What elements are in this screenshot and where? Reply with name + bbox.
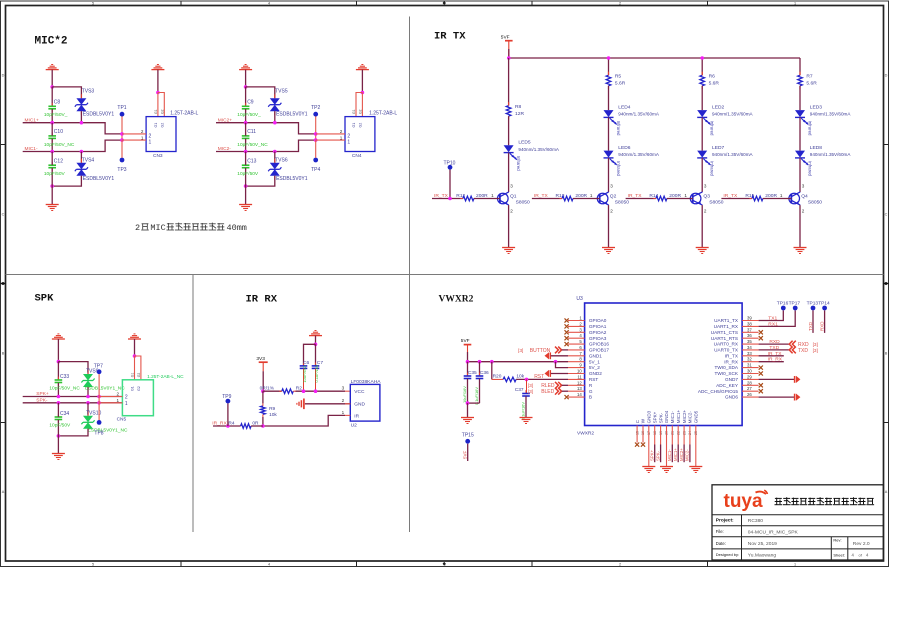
svg-text:TP7: TP7 bbox=[94, 363, 103, 369]
svg-text:[3]: [3] bbox=[813, 348, 818, 354]
connector CN5 box (NC, green) bbox=[122, 380, 153, 416]
wire TP14 stem bbox=[824, 310, 826, 333]
wire to base bbox=[763, 198, 791, 200]
node bbox=[244, 150, 248, 154]
svg-text:Infrared: Infrared bbox=[807, 161, 812, 176]
wire TP9 stem bbox=[227, 403, 229, 426]
svg-text:LF0038KAHA: LF0038KAHA bbox=[351, 379, 382, 385]
svg-text:MIC2-: MIC2- bbox=[688, 411, 693, 424]
svg-text:C: C bbox=[885, 213, 888, 217]
svg-text:VCC: VCC bbox=[354, 389, 365, 395]
node bbox=[57, 434, 61, 438]
svg-text:GPIOA1: GPIOA1 bbox=[589, 324, 607, 329]
node bbox=[57, 401, 61, 405]
svg-text:0.1uF/16V: 0.1uF/16V bbox=[314, 364, 319, 382]
wire tp stem bbox=[315, 140, 317, 158]
svg-text:tuya: tuya bbox=[724, 491, 764, 512]
svg-text:MIC2-: MIC2- bbox=[685, 449, 690, 461]
node rail-top MIC2 bbox=[244, 85, 248, 89]
svg-text:3: 3 bbox=[443, 2, 445, 6]
svg-text:10uF/6V3: 10uF/6V3 bbox=[302, 366, 307, 383]
U3 bottom pin GND4 to ground bbox=[666, 426, 668, 467]
wire TVS to rail bottom bbox=[246, 176, 275, 186]
svg-text:LED3: LED3 bbox=[810, 105, 823, 111]
svg-text:GPIOA3: GPIOA3 bbox=[589, 336, 607, 341]
U3 bottom pins 15,16 no-connect bbox=[636, 426, 638, 443]
ground bottom rail bbox=[46, 204, 59, 206]
pin 1 of CN4 bbox=[316, 139, 345, 141]
svg-text:940nm/1.35V/60mA: 940nm/1.35V/60mA bbox=[518, 147, 560, 152]
svg-text:TP16: TP16 bbox=[777, 301, 789, 307]
node bbox=[97, 395, 101, 399]
svg-text:2: 2 bbox=[510, 209, 513, 214]
svg-text:1: 1 bbox=[149, 140, 152, 146]
svg-text:0.1uF/16V: 0.1uF/16V bbox=[474, 387, 479, 405]
node bus-1 bbox=[507, 56, 511, 60]
wire TP8 stem bbox=[98, 403, 100, 420]
node bbox=[361, 91, 365, 95]
svg-text:G: G bbox=[589, 389, 593, 394]
wire tp stem bbox=[121, 116, 123, 140]
svg-text:GPIOA2: GPIOA2 bbox=[589, 330, 607, 335]
node bbox=[314, 132, 318, 136]
U3 bottom pin GND3 to ground bbox=[648, 426, 650, 467]
LED LED5 infrared bbox=[504, 145, 514, 152]
node bbox=[261, 389, 265, 393]
svg-text:3: 3 bbox=[443, 563, 445, 567]
svg-text:5VF: 5VF bbox=[501, 34, 510, 40]
title block rev/sheet columns bbox=[830, 537, 832, 560]
svg-text:3: 3 bbox=[610, 183, 613, 188]
resistor R8 12R bbox=[506, 106, 511, 117]
svg-text:940nm/1.35V/60mA: 940nm/1.35V/60mA bbox=[810, 112, 852, 117]
svg-text:2: 2 bbox=[125, 395, 128, 401]
svg-text:34: 34 bbox=[747, 345, 752, 350]
wire IR_RX bbox=[213, 425, 241, 427]
U3 right row 2: wire to TP17, label RX1 bbox=[759, 310, 796, 326]
svg-text:IR_RX: IR_RX bbox=[724, 359, 739, 364]
TVS diode TVS10 (NC, green) bbox=[87, 403, 89, 416]
svg-text:C: C bbox=[2, 213, 5, 217]
svg-text:MIC1-: MIC1- bbox=[670, 411, 675, 424]
resistor R5 5.6R bbox=[606, 75, 611, 86]
pin 2 of CN4 bbox=[316, 133, 345, 135]
capacitor C6 bbox=[303, 363, 305, 366]
svg-text:G1: G1 bbox=[131, 386, 135, 391]
svg-text:TXD: TXD bbox=[769, 345, 779, 351]
svg-text:10pF/50V_NC: 10pF/50V_NC bbox=[237, 142, 268, 148]
svg-text:GND3: GND3 bbox=[647, 410, 652, 423]
svg-text:32: 32 bbox=[747, 357, 752, 362]
svg-text:30: 30 bbox=[747, 369, 752, 374]
svg-text:5.6R: 5.6R bbox=[615, 80, 626, 86]
svg-text:S8050: S8050 bbox=[516, 199, 530, 205]
node bbox=[97, 401, 101, 405]
no-connect X mark U3 pin 14 bbox=[565, 395, 569, 399]
wire TP15 stem bbox=[467, 444, 469, 461]
svg-text:GPIOA0: GPIOA0 bbox=[589, 318, 607, 323]
svg-text:12: 12 bbox=[577, 380, 582, 385]
node bbox=[50, 121, 54, 125]
resistor R9 10k bbox=[261, 406, 266, 415]
svg-text:36: 36 bbox=[747, 333, 752, 338]
svg-text:RC380: RC380 bbox=[748, 518, 764, 524]
svg-text:G1: G1 bbox=[154, 123, 158, 128]
pin 2 GND of U2 with sideways ground bbox=[305, 403, 350, 405]
svg-text:G1: G1 bbox=[352, 123, 356, 128]
node bbox=[273, 150, 277, 154]
wire TVS to rail bottom bbox=[52, 176, 81, 186]
svg-text:TP8: TP8 bbox=[94, 431, 103, 437]
company name chinese bbox=[775, 497, 782, 499]
svg-text:TP3: TP3 bbox=[117, 167, 126, 173]
svg-text:RXD: RXD bbox=[819, 321, 824, 331]
test point TP8 bbox=[97, 420, 102, 425]
svg-text:1: 1 bbox=[141, 135, 144, 140]
TVS diode TVS5 bbox=[274, 94, 276, 98]
svg-text:33: 33 bbox=[747, 351, 752, 356]
svg-text:TXD: TXD bbox=[798, 348, 808, 354]
svg-text:GND6: GND6 bbox=[725, 395, 738, 400]
ground bbox=[696, 247, 709, 249]
svg-text:D: D bbox=[885, 74, 888, 78]
svg-text:MIC1+: MIC1+ bbox=[673, 448, 678, 461]
svg-text:TP2: TP2 bbox=[311, 105, 320, 111]
U3 right row 6: UART0_TX to port TXD bbox=[759, 349, 790, 351]
frame center diamond markers bbox=[0, 282, 6, 285]
wire gnd loop to connector pins bbox=[158, 93, 164, 117]
svg-text:TP10: TP10 bbox=[444, 160, 456, 166]
svg-text:TWI0_SCK: TWI0_SCK bbox=[715, 371, 739, 376]
ground top rail MIC1 bbox=[51, 64, 53, 66]
wire base chain bbox=[532, 198, 562, 200]
svg-text:1: 1 bbox=[491, 193, 494, 198]
node rail-top MIC1 bbox=[50, 85, 54, 89]
svg-text:10pF/50V_: 10pF/50V_ bbox=[237, 112, 261, 118]
node bbox=[57, 395, 61, 399]
svg-text:[3]: [3] bbox=[528, 383, 533, 389]
svg-text:LED5: LED5 bbox=[518, 140, 531, 146]
ground bbox=[602, 247, 615, 249]
svg-text:R2: R2 bbox=[296, 385, 302, 391]
test point TP9 bbox=[226, 399, 231, 404]
svg-text:CN5: CN5 bbox=[117, 416, 127, 422]
svg-text:MIC*2: MIC*2 bbox=[35, 36, 68, 48]
wire branch rail R5 bbox=[608, 58, 610, 75]
svg-text:40mm: 40mm bbox=[227, 223, 247, 233]
svg-text:C10: C10 bbox=[54, 129, 63, 135]
frame zone ticks top/bottom bbox=[180, 1, 182, 6]
svg-text:Infrared: Infrared bbox=[710, 161, 715, 176]
node bbox=[554, 360, 558, 364]
svg-text:UART1_RX: UART1_RX bbox=[714, 324, 739, 329]
wire to TVS9 bbox=[58, 362, 88, 374]
svg-text:TVS4: TVS4 bbox=[82, 157, 95, 163]
svg-text:1: 1 bbox=[347, 140, 350, 146]
wire TVS to MIC+ wire bbox=[80, 111, 82, 123]
U3 bottom labelled stubs SPK/MIC nets bbox=[654, 426, 656, 445]
svg-text:Yu.Maowang: Yu.Maowang bbox=[748, 552, 777, 558]
svg-text:R9: R9 bbox=[269, 406, 275, 412]
svg-text:940nm/1.35V/60mA: 940nm/1.35V/60mA bbox=[810, 152, 852, 157]
test point TP16 bbox=[781, 306, 786, 311]
svg-text:04-MCU_IR_MIC_SPK: 04-MCU_IR_MIC_SPK bbox=[748, 529, 799, 535]
svg-text:UART0_RX: UART0_RX bbox=[714, 342, 739, 347]
capacitor C37 bbox=[526, 379, 528, 393]
svg-text:BUTTON: BUTTON bbox=[530, 348, 551, 354]
test point TP10 bbox=[448, 165, 453, 170]
svg-text:C37: C37 bbox=[515, 387, 524, 393]
wire bbox=[608, 117, 610, 150]
wire gnd loop to connector pins bbox=[356, 93, 362, 117]
svg-text:3V3: 3V3 bbox=[256, 356, 265, 362]
svg-text:13: 13 bbox=[577, 386, 582, 391]
svg-text:11: 11 bbox=[577, 374, 582, 379]
svg-text:10pF/50V_NC: 10pF/50V_NC bbox=[44, 142, 75, 148]
node bbox=[156, 91, 160, 95]
svg-text:Q2: Q2 bbox=[610, 193, 617, 199]
title block row lines bbox=[712, 514, 883, 516]
svg-text:LED4: LED4 bbox=[618, 105, 631, 111]
svg-text:ESDBL5V0Y1: ESDBL5V0Y1 bbox=[276, 176, 308, 182]
svg-text:C11: C11 bbox=[247, 129, 256, 135]
svg-text:IR: IR bbox=[354, 413, 359, 419]
svg-text:TVS6: TVS6 bbox=[275, 157, 288, 163]
svg-text:G2: G2 bbox=[160, 109, 164, 114]
test point TP14 bbox=[822, 306, 827, 311]
svg-text:29: 29 bbox=[747, 374, 752, 379]
svg-text:2: 2 bbox=[149, 133, 152, 139]
wire MIC2- bbox=[216, 140, 316, 151]
svg-text:LED7: LED7 bbox=[712, 145, 725, 151]
svg-text:MIC: MIC bbox=[150, 223, 165, 233]
wire tp stem bbox=[315, 116, 317, 140]
wire to TVS top bbox=[52, 87, 81, 98]
svg-text:C34: C34 bbox=[60, 411, 69, 417]
wire bbox=[701, 117, 703, 150]
svg-text:Nov 25, 2019: Nov 25, 2019 bbox=[748, 541, 777, 547]
node bbox=[314, 138, 318, 142]
svg-text:1.25T-2AB-L: 1.25T-2AB-L bbox=[170, 111, 198, 117]
capacitor C11 on rail bbox=[245, 133, 247, 136]
capacitor C9 on rail bbox=[245, 87, 247, 106]
title block column line bbox=[741, 515, 743, 560]
ground bbox=[794, 247, 807, 249]
wire to ground bbox=[467, 403, 469, 417]
ground bbox=[502, 247, 515, 249]
svg-text:ESDBL5V0Y1_NC: ESDBL5V0Y1_NC bbox=[85, 386, 125, 392]
svg-text:2: 2 bbox=[141, 129, 144, 134]
node bbox=[314, 343, 318, 347]
svg-text:2: 2 bbox=[802, 209, 805, 214]
test point TP2 bbox=[313, 112, 318, 117]
svg-text:MIC2+: MIC2+ bbox=[682, 410, 687, 424]
svg-text:5: 5 bbox=[92, 2, 94, 6]
node bbox=[466, 401, 470, 405]
svg-text:RST: RST bbox=[534, 374, 544, 380]
svg-text:Sheet:: Sheet: bbox=[833, 552, 845, 557]
section divider vertical top bbox=[409, 17, 411, 275]
resistor R7 5.6R bbox=[798, 75, 803, 86]
wire gnd to C6 bbox=[304, 344, 316, 366]
U3 box VWXR2 bbox=[585, 303, 743, 426]
ground under C35/C36 bbox=[461, 417, 474, 419]
svg-text:14: 14 bbox=[577, 392, 582, 397]
transistor stage at x=509 bbox=[498, 193, 509, 204]
svg-text:5.6R: 5.6R bbox=[806, 80, 817, 86]
wire 5V rail to pin 8 (5V_1) bbox=[468, 361, 569, 363]
svg-text:940nm/1.35V/60mA: 940nm/1.35V/60mA bbox=[712, 152, 754, 157]
pin 1 of CN3 bbox=[122, 139, 146, 141]
no-connect X marks U3 right pins 37,36,31,30,28,27 bbox=[759, 330, 763, 334]
svg-text:LED8: LED8 bbox=[810, 145, 823, 151]
wire emitter to ground bbox=[799, 205, 801, 247]
wire LED to collector bbox=[701, 158, 703, 192]
ground under C37 bbox=[520, 417, 533, 419]
svg-text:TWI0_SDA: TWI0_SDA bbox=[715, 365, 739, 370]
svg-text:GPIOB17: GPIOB17 bbox=[589, 348, 609, 353]
svg-text:U3: U3 bbox=[576, 296, 583, 302]
wire TVS to MIC+ wire bbox=[274, 111, 276, 123]
svg-text:C35: C35 bbox=[468, 370, 477, 376]
pin 1 IR of U2 bbox=[345, 414, 350, 416]
wire bbox=[245, 70, 247, 87]
svg-text:940nm/1.35V/60mA: 940nm/1.35V/60mA bbox=[712, 112, 754, 117]
svg-text:1: 1 bbox=[340, 135, 343, 140]
svg-text:ADC_KEY: ADC_KEY bbox=[716, 383, 739, 388]
test point TP7 bbox=[97, 369, 102, 374]
node bbox=[466, 360, 470, 364]
node bus-2 bbox=[607, 56, 611, 60]
svg-text:Infrared: Infrared bbox=[807, 121, 812, 136]
svg-text:39: 39 bbox=[747, 316, 752, 321]
node bbox=[273, 121, 277, 125]
svg-text:LED6: LED6 bbox=[618, 145, 631, 151]
node bbox=[244, 121, 248, 125]
node TP10-base bbox=[448, 197, 452, 201]
wire emitter to ground bbox=[701, 205, 703, 247]
U3 right row 11: GND7 ground arrow bbox=[759, 378, 795, 380]
svg-text:C9: C9 bbox=[247, 100, 254, 106]
ground bottom SPK rail bbox=[52, 453, 65, 455]
wire to base bbox=[474, 198, 500, 200]
U3 bottom pin GND5 to ground bbox=[695, 426, 697, 467]
svg-text:1.25T-2AB-L_NC: 1.25T-2AB-L_NC bbox=[147, 374, 184, 380]
svg-text:IR TX: IR TX bbox=[434, 31, 466, 43]
wire MIC1+ bbox=[23, 123, 122, 134]
svg-text:UART1_RTS: UART1_RTS bbox=[711, 336, 738, 341]
svg-text:File:: File: bbox=[716, 529, 724, 534]
transistor stage at x=800 bbox=[789, 193, 800, 204]
svg-text:3: 3 bbox=[704, 183, 707, 188]
svg-text:TVS5: TVS5 bbox=[275, 88, 288, 94]
section divider vertical bottom-right bbox=[409, 275, 411, 533]
svg-text:Infrared: Infrared bbox=[616, 121, 621, 136]
svg-text:5VF: 5VF bbox=[463, 450, 468, 459]
ground bottom rail bbox=[239, 204, 252, 206]
wire LED to collector bbox=[799, 158, 801, 192]
svg-text:31: 31 bbox=[747, 363, 752, 368]
svg-text:SPK: SPK bbox=[35, 293, 55, 305]
svg-text:Project:: Project: bbox=[716, 518, 734, 524]
svg-text:G1: G1 bbox=[352, 109, 356, 114]
svg-text:IR_TX: IR_TX bbox=[768, 351, 783, 357]
svg-text:TP1: TP1 bbox=[117, 105, 126, 111]
wire TP7 stem bbox=[98, 374, 100, 403]
ground top rail MIC2 bbox=[245, 64, 247, 66]
svg-text:UART0_TX: UART0_TX bbox=[714, 348, 739, 353]
svg-text:CN4: CN4 bbox=[352, 153, 362, 159]
capacitor C33 bbox=[57, 362, 59, 380]
svg-text:A: A bbox=[885, 490, 888, 494]
wire base chain bbox=[626, 198, 656, 200]
svg-text:GND: GND bbox=[354, 402, 365, 408]
svg-text:MIC2+: MIC2+ bbox=[679, 448, 684, 461]
svg-text:1: 1 bbox=[590, 193, 593, 198]
LED LED3 infrared bbox=[795, 110, 805, 117]
svg-text:UART1_CTS: UART1_CTS bbox=[711, 330, 738, 335]
svg-text:TP9: TP9 bbox=[222, 394, 231, 400]
svg-text:26: 26 bbox=[747, 392, 752, 397]
wire to TVS top bbox=[246, 87, 275, 98]
node bbox=[120, 132, 124, 136]
svg-text:A: A bbox=[2, 490, 5, 494]
wire LED to collector bbox=[508, 153, 510, 192]
svg-text:MIC1-: MIC1- bbox=[667, 449, 672, 461]
svg-text:SPK-: SPK- bbox=[658, 412, 663, 423]
pin 2 of CN5 bbox=[99, 396, 122, 398]
svg-text:R8: R8 bbox=[515, 104, 522, 110]
node bus-3 bbox=[700, 56, 704, 60]
connector CN5 ground top bbox=[134, 333, 136, 335]
node bbox=[525, 378, 529, 382]
svg-text:GND1: GND1 bbox=[589, 353, 602, 358]
svg-text:ESDBL5V0Y1: ESDBL5V0Y1 bbox=[83, 176, 115, 182]
wire branch rail R6 bbox=[701, 58, 703, 75]
capacitor C36 bbox=[479, 362, 481, 376]
frame zone ticks left/right bbox=[1, 144, 6, 146]
svg-text:IR_RX: IR_RX bbox=[768, 357, 783, 363]
svg-text:GND4: GND4 bbox=[664, 410, 669, 423]
svg-text:5V_1: 5V_1 bbox=[589, 359, 600, 364]
wire cap bottoms bbox=[468, 402, 480, 404]
U3 right row 1: wire to TP16, label TX1 bbox=[759, 310, 784, 320]
wire to base bbox=[667, 198, 693, 200]
wire base chain bbox=[721, 198, 752, 200]
wire base chain bbox=[432, 198, 463, 200]
svg-text:10: 10 bbox=[577, 369, 582, 374]
svg-text:CN3: CN3 bbox=[153, 153, 163, 159]
svg-text:12R: 12R bbox=[515, 111, 524, 117]
ground arrow at pin 7 GND1 bbox=[545, 352, 550, 359]
svg-text:5VF: 5VF bbox=[461, 338, 470, 344]
U3 right row 14: GND6 ground arrow bbox=[759, 396, 795, 398]
svg-text:TVS3: TVS3 bbox=[82, 88, 95, 94]
svg-text:SPK+: SPK+ bbox=[652, 411, 657, 423]
svg-text:4: 4 bbox=[268, 2, 270, 6]
svg-text:Designed by:: Designed by: bbox=[716, 552, 739, 557]
svg-text:RX1: RX1 bbox=[768, 321, 778, 327]
svg-text:Q1: Q1 bbox=[510, 193, 517, 199]
svg-text:TP17: TP17 bbox=[789, 301, 801, 307]
capacitor C35 bbox=[467, 362, 469, 376]
svg-text:MIC1+: MIC1+ bbox=[676, 410, 681, 424]
svg-text:1: 1 bbox=[794, 563, 796, 567]
svg-text:GPIOB16: GPIOB16 bbox=[589, 342, 609, 347]
svg-text:VWXR2: VWXR2 bbox=[439, 295, 474, 305]
svg-text:GND5: GND5 bbox=[694, 410, 699, 423]
svg-text:TX1: TX1 bbox=[768, 315, 777, 321]
